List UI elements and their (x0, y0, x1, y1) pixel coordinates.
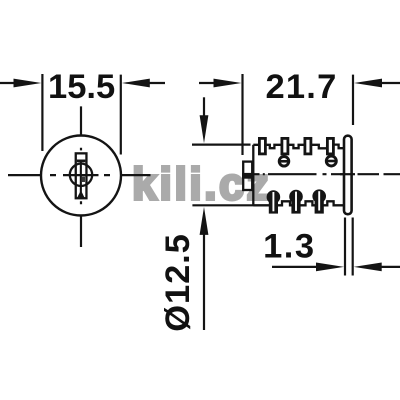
front view cylinder circle (41, 136, 121, 216)
cam middle band (242, 173, 254, 179)
dimension 12.5 down arrow (203, 97, 205, 118)
dimension 15.5 left arrow (0, 82, 20, 84)
dimension 15.5 extension lines (42, 74, 120, 155)
keyhole bottom wedge (77, 192, 85, 198)
bottom pin 1 (267, 190, 281, 213)
svg-text:Ø12.5: Ø12.5 (159, 233, 197, 331)
dimension 21.7 left arrow (199, 82, 216, 84)
centerline through flange (340, 173, 355, 175)
bottom pin 2 (289, 190, 303, 214)
top tab 3 (305, 138, 311, 154)
dimension 1.3 extension lines (345, 218, 353, 276)
side view body bottom edge with bumps (253, 201, 343, 205)
keyhole outer rectangle (76, 153, 87, 198)
dimension 12.5 up arrow (203, 232, 205, 330)
top tab 2 (282, 138, 288, 154)
svg-text:kili.cz: kili.cz (132, 159, 271, 210)
dimension 15.5 right arrow (140, 82, 165, 84)
cam at left of side view (243, 162, 252, 190)
keyhole ward mark (82, 177, 85, 182)
side view centerline (253, 173, 400, 175)
theta symbol 1 (278, 157, 290, 167)
side view body top edge with notches (253, 145, 343, 149)
front view vertical centerline (80, 106, 82, 247)
side view body left edge (252, 145, 254, 206)
flange disc at right (344, 136, 352, 215)
dimension 1.3 right arrow (372, 266, 400, 268)
bottom pin 3 (312, 189, 326, 213)
svg-text:1.3: 1.3 (263, 227, 315, 265)
top tab 4 (327, 138, 333, 154)
svg-text:21.7: 21.7 (266, 68, 338, 106)
keyhole slot top cap (77, 160, 86, 163)
dimension 1.3 left arrow (272, 266, 320, 268)
dimension 21.7 right arrow (373, 82, 400, 84)
dimension 21.7 extension lines (243, 74, 354, 155)
keyhole plug circle (70, 164, 92, 186)
keyhole slot center divider (80, 161, 82, 193)
dimension 12.5 extension lines (192, 145, 254, 206)
front view horizontal centerline (8, 174, 151, 176)
top tab 1 (259, 138, 265, 154)
svg-text:15.5: 15.5 (48, 68, 115, 106)
theta symbol 2 (325, 156, 337, 166)
